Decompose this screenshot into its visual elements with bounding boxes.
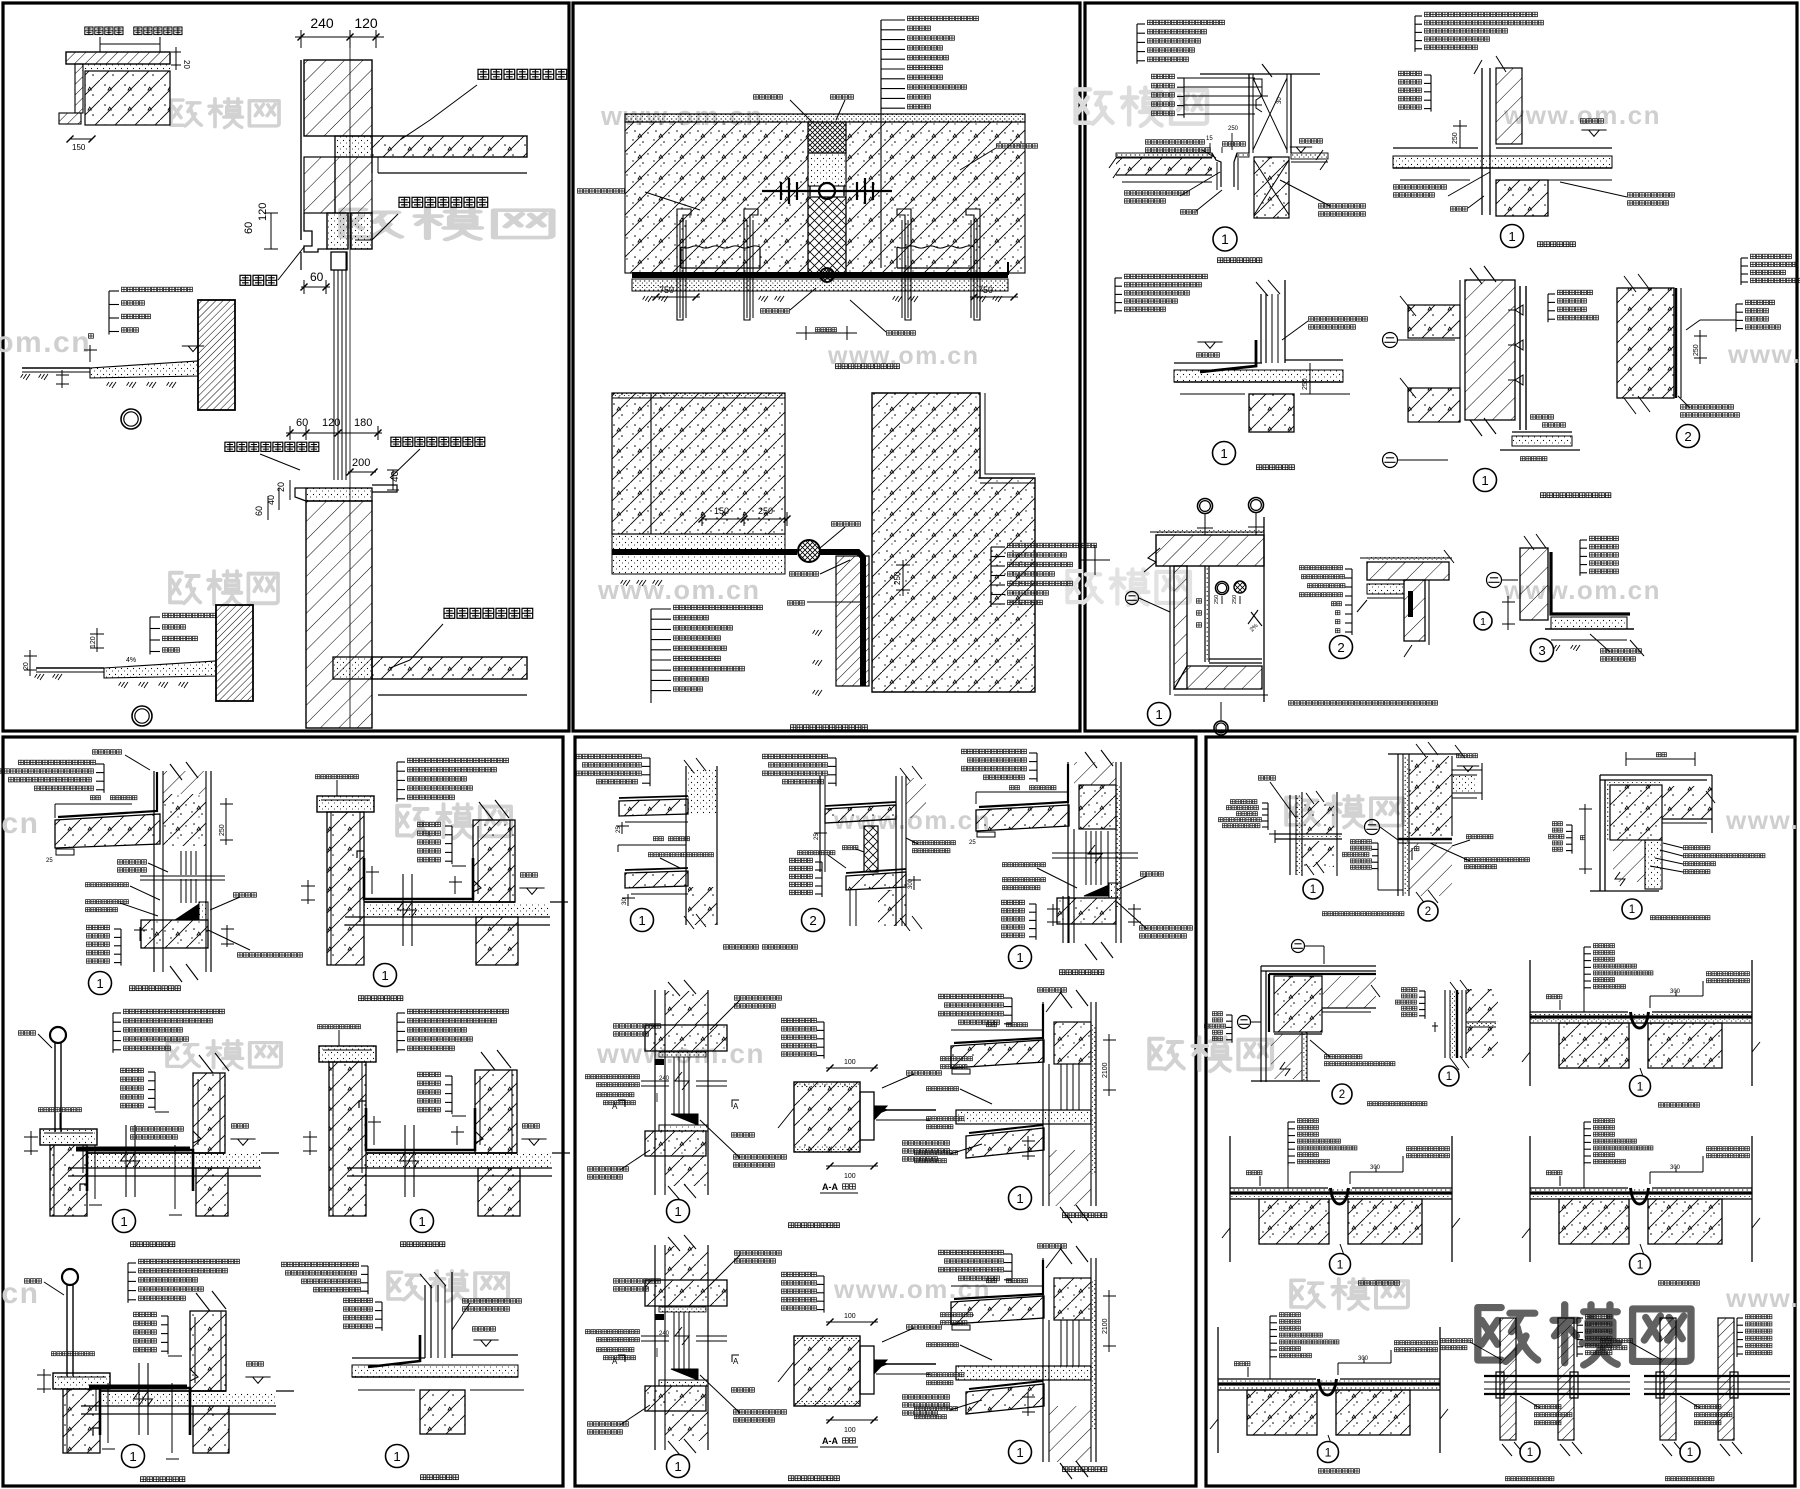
p6E wall strips [1444,990,1446,1058]
p4F right label 2 rows [462,1298,522,1304]
svg-text:1: 1 [1220,446,1227,461]
p3B top leader stack [1414,16,1416,52]
window mullion lines [333,270,335,480]
p3A bottom-left 2-row label [1124,190,1190,196]
p4A sill black wedge [175,904,199,920]
ground detail C dim 120 [96,628,98,652]
p2 dims 150 250 [702,518,787,520]
svg-text:1: 1 [674,1204,681,1219]
p3A downpipe label [1180,209,1198,215]
p5A mid dim row [653,836,664,842]
p3B wall above slab hatched [1496,68,1522,144]
svg-text:1: 1 [638,913,645,928]
p3A top leader stack [1136,24,1138,64]
detail A granite-corner labels [84,26,124,36]
p6D right wing hatch [1322,976,1376,1008]
p2 bottom membrane with elbow [612,549,797,555]
p3B pipe label [1450,206,1468,212]
p3C circled 1 [1213,442,1236,465]
svg-text:A-A: A-A [822,1436,838,1446]
p3F top wall band hatched [1156,535,1264,566]
svg-text:250: 250 [1232,595,1238,604]
p2 bottom-left block [612,393,785,534]
p6B circled 2 [1418,901,1438,921]
p6D earth symbol left [1238,1016,1251,1029]
p6C break mark right [1706,791,1715,803]
upper beam in wall [335,136,372,157]
p6C circled 1 [1622,899,1642,919]
p4A top dim line [90,795,101,801]
p6D caption [1367,1101,1428,1107]
p6C top dim bracket [1626,758,1695,760]
ground detail B ground line left and soil [22,367,90,369]
svg-text:1: 1 [1221,232,1229,247]
p3A floor slab [1116,158,1212,175]
p6E left stack [1424,991,1426,1019]
p3H earth symbol left [1487,573,1502,588]
ground detail B soil zigzag below slab [107,382,116,388]
p3A mid-left 2-row label [1145,139,1205,145]
p6A small tick [1274,830,1276,843]
svg-text:1: 1 [1481,473,1488,488]
ground detail C wall block [216,605,253,701]
panel border bottom-left [3,737,563,1486]
p2 bottom speckle band [632,279,1008,291]
p2 bottom-right block outline [872,393,1035,692]
svg-text:20: 20 [276,482,286,492]
joint caption [1287,1122,1289,1166]
p6C right concrete wing [1662,786,1712,819]
p6E break marks [1450,980,1469,994]
label precast terrazzo window sill board [390,436,486,448]
p5B right label 2rows [912,840,956,846]
p5A lower slab [625,871,688,888]
watermark om logo p1 bottom [170,571,278,605]
p3H circled 1 small left [1474,612,1492,630]
svg-text:2100: 2100 [1102,1318,1109,1334]
p2 label caulking above joint [753,94,783,100]
p3B left small stack [1430,75,1432,112]
p2 label pvc strip right [886,330,916,336]
p3C caption [1256,464,1295,471]
p3A caption [1217,257,1263,264]
svg-text:1: 1 [1337,1257,1344,1271]
p6C corner frame lines [1600,775,1712,780]
p3A right 2-row label [1318,203,1366,209]
p3C right leader label 2 rows [1308,316,1368,322]
p3D bottom labels [1530,414,1554,420]
svg-text:1: 1 [1637,1079,1644,1093]
central upper wall hatched [300,60,302,240]
p2 water stop lines wavy [681,246,760,248]
watermark om logo p1 mid [342,208,552,239]
p6B lower hatch [1409,843,1452,896]
svg-text:120: 120 [354,15,378,31]
p3D circled 1 [1474,469,1497,492]
ground detail B wall block [198,300,235,410]
p4F circled 1 [386,1445,409,1468]
svg-text:1: 1 [1508,229,1515,244]
svg-text:A: A [733,1357,739,1366]
svg-text:1: 1 [120,1214,127,1229]
p3G inner tile band [1367,584,1404,594]
p4A lower concrete block [141,920,208,948]
svg-text:100: 100 [844,1173,856,1180]
p3C membrane upturn at window [1200,340,1256,372]
p5B slope label [797,850,836,856]
p6D corner outer lines [1261,966,1376,971]
p3B circled 1 [1501,225,1524,248]
p6C inner concrete block [1610,785,1662,840]
p6A break marks [1306,791,1324,804]
p6A+B caption [1322,911,1405,917]
p3F right edge line [1263,517,1265,702]
p2 soil hatch clusters [643,296,652,302]
svg-text:3: 3 [1538,643,1545,658]
svg-text:150: 150 [72,143,86,152]
svg-text:1: 1 [418,1214,425,1229]
svg-text:300: 300 [1670,989,1681,995]
p3F circled 1 [1148,703,1171,726]
p3B dim 250 near pipe [1459,120,1461,148]
bay caption [1011,998,1013,1027]
joint caption [1583,1122,1585,1166]
p4A vdim right 250 [225,798,227,845]
p3A small stack rung extensions [1184,77,1255,79]
p4F t-beam [420,1390,465,1434]
ground detail C leader stack [149,617,151,655]
svg-text:25: 25 [46,858,53,864]
label precast concrete lintel [398,196,489,209]
panel border bottom-middle [575,737,1196,1486]
ground detail B circle mark [121,409,141,429]
svg-text:1: 1 [674,1459,681,1474]
p5A dim 25 [621,822,623,834]
left wall face line going down [300,252,302,270]
p6D bottom ground line [1251,1080,1320,1082]
p3D anchor marks [1515,305,1523,315]
svg-text:300: 300 [908,878,914,889]
p6D earth symbol top [1292,940,1305,953]
ground detail C left dims [29,650,31,676]
p3G right wall [1404,580,1425,641]
svg-text:60: 60 [243,222,255,234]
p5AB captions [723,944,759,950]
detail A bottom return piece [59,113,81,124]
skirt circled 1 [654,1245,656,1450]
p3A nabla floor label right [1296,147,1306,153]
p4E flagpole circle 2 [62,1269,78,1285]
p5B vent box crosshatch [864,826,878,872]
p6C left stack [1571,825,1573,854]
svg-text:2100: 2100 [1102,1062,1109,1078]
p6B break top right [1455,745,1465,758]
p4A inner sill label [233,892,257,898]
watermark om logo p3 left-mid fragment [1067,569,1190,605]
svg-text:A: A [733,1102,739,1111]
p3A drain dip and pipe [1212,153,1221,187]
detail A mortar band under slab [82,64,170,71]
p3C window mullions [1260,294,1262,363]
p4F membrane upturn [368,1335,420,1367]
skirt circled 1 [654,990,656,1195]
p5A dim 30 [627,894,629,906]
p6C left vdim [1584,804,1586,874]
p3D left break diag [1400,296,1416,398]
balcony caption [319,1046,376,1062]
p3G top wall band [1367,562,1449,580]
svg-text:250: 250 [893,571,902,585]
svg-text:200: 200 [352,457,370,469]
p6B membrane at floor [1398,838,1452,840]
svg-text:2: 2 [809,913,816,928]
ground detail C floor wedge [104,661,216,678]
p2 recess steps [680,247,682,268]
p3E membrane lines right edge [1675,288,1677,398]
p4C label rows mid [130,1126,184,1132]
p3E wall block [1617,288,1674,398]
svg-text:100: 100 [844,1313,856,1320]
svg-text:240: 240 [659,1076,670,1082]
svg-text:A-A: A-A [822,1182,838,1192]
svg-text:15: 15 [1206,136,1213,142]
svg-text:30: 30 [622,898,628,905]
label fine-stone concrete floor (top) [477,68,568,81]
svg-text:30: 30 [1277,97,1283,104]
p6A axis line [1336,792,1338,876]
svg-text:750: 750 [978,285,993,295]
svg-text:1: 1 [1310,884,1316,896]
svg-text:100: 100 [844,1059,856,1066]
svg-text:300: 300 [1370,1165,1381,1171]
watermark om logo p6 mid-light [1291,1279,1408,1310]
p3B t-beam right of pipe [1496,180,1548,216]
svg-text:150: 150 [714,506,729,516]
watermark om logo p3 left-top fragment [1076,88,1207,126]
p6B top line [1388,753,1460,755]
p6A left stack [1267,803,1269,830]
p3H right lower label 2 rows [1600,648,1642,654]
p3C dim 250 [1309,363,1311,394]
p4F small stack left [381,1302,383,1331]
p3C top-left leader stack [1114,278,1116,314]
p3D caption [1540,492,1612,499]
detail A wall render strip [75,64,83,113]
p2 label waterproof layer [787,600,805,606]
svg-text:25: 25 [616,826,622,833]
p6D left stack [1231,1015,1233,1043]
svg-text:1: 1 [96,976,103,991]
ground detail B leader stack [108,291,110,335]
p3A right floor band [1291,153,1328,159]
balcony caption [317,796,374,812]
p3A floor surface bands [1116,153,1212,157]
p2 top caption [835,363,900,370]
p4A wall double lines [153,771,155,972]
p6E hatch right of wall [1466,989,1498,1022]
svg-text:60: 60 [254,506,264,516]
bay caption [1011,1254,1013,1283]
p6D membrane dark lines [1269,973,1376,975]
p6A top label drain [1258,775,1276,781]
svg-text:100: 100 [844,1427,856,1434]
p3A wall interior X [1253,78,1287,150]
wall between slab and lintel [304,157,335,213]
p2 soil ticks below left block [621,580,630,586]
p5A lower wall hatch [688,887,717,925]
p4E thick membrane band [89,1385,187,1390]
p2 label foam backing [789,571,819,577]
svg-text:4%: 4% [126,657,136,664]
svg-text:1: 1 [129,1449,136,1464]
p3F drains [1216,582,1229,595]
p3F inner face labels [1196,598,1202,604]
svg-text:240: 240 [659,1331,670,1337]
watermark om logo p6 big dark [1478,1305,1691,1365]
p5B wall lines left [819,776,821,872]
watermark om logo p6 top [1286,796,1403,827]
p6B left stack [1377,843,1379,872]
detail A dims [175,47,177,70]
ground detail B nabla [188,346,198,352]
p6D inner concrete square [1274,976,1322,1032]
p3D earth symbols [1383,333,1398,348]
p6A slab band [1275,833,1342,835]
p5B top stack [835,758,837,786]
p6C column strip below [1645,840,1662,889]
p6E small dim [1432,1025,1438,1027]
p3C balcony floor label + nabla [1196,352,1220,358]
p3G corner seal black [1408,591,1413,617]
p5B wall right lines [895,776,897,926]
svg-text:25: 25 [969,840,976,846]
p3A wall top line and break [1200,73,1320,75]
svg-text:250: 250 [1214,595,1220,604]
p2 waterstop circle [819,183,835,199]
p2 label left waterproof [577,188,625,194]
p2 joint diamond filler strip [808,197,846,276]
ground detail C ground line left and soil [36,667,104,669]
p3A drain opening label [1222,141,1246,147]
svg-text:1: 1 [1016,1445,1023,1460]
svg-text:180: 180 [354,417,372,429]
p6B upper concrete mass [1409,756,1452,836]
svg-text:250: 250 [1693,344,1700,356]
p3H right stack [1579,540,1581,576]
p3F left wall band [1174,566,1187,689]
p3H membrane elbow thick [1551,552,1630,614]
p3F plan refs top [1198,499,1213,514]
ground detail B floor wedge [90,361,198,378]
p3A left small stack [1183,78,1185,118]
svg-text:40: 40 [390,470,401,482]
p2 vertical dim 250 right [902,560,904,596]
p6C hatch left of column [1613,840,1645,882]
p4A wall break top [170,762,198,780]
p3G left label stack 8 rows [1351,569,1353,635]
svg-text:250: 250 [1302,378,1309,390]
p2 membrane joint circle [820,268,834,282]
p2 horizontal tick marks right mass [1080,559,1110,561]
label fill no.200 fine stone concrete [224,441,320,453]
p6D right labels 2 rows [1324,1054,1363,1060]
svg-text:1: 1 [1016,1191,1023,1206]
svg-text:250: 250 [219,824,226,836]
svg-text:www.om.cn: www.om.cn [1503,100,1661,130]
p3B right leader label 2 rows [1627,192,1675,198]
p2 joint filler crosshatch [808,122,846,153]
p2 bottom-right leader stack [990,547,992,607]
p4C thick membrane band [76,1147,190,1152]
p3F top band break [1144,548,1160,572]
p2 joint caulking dots [808,153,846,186]
window frame head [331,252,347,270]
p3B caption [1537,241,1576,248]
p4A lower-left small stack [120,929,122,966]
detail A hatched wall block [85,71,170,125]
p6B small dim [1411,848,1413,860]
p2 soil zigzag left of strip [813,630,822,636]
p6C caption [1650,915,1711,921]
pipe caption [1660,1318,1676,1440]
p2 label right pipe joint [996,143,1038,149]
svg-text:www.: www. [1725,805,1799,835]
p3E bottom labels 2 rows [1680,404,1734,410]
p4A top leader stack right-aligned [103,764,105,793]
p5A circled 1 [631,909,654,932]
p6B step slab right [1452,770,1482,798]
detail A granite top slab [66,52,170,64]
p4F top stack right-aligned [367,1266,369,1294]
p4A 2row label seal [85,899,129,905]
p3A wall with double edges [1248,74,1250,153]
svg-text:1: 1 [381,968,388,983]
p2 top-right leader stack [880,20,882,111]
p2 waterstop circle bottom [798,540,820,562]
p3H soil ticks [1551,645,1560,651]
p3A parapet profile inside wall [1254,79,1262,112]
p2 top-left concrete mass [625,122,808,273]
pipe caption [1500,1318,1516,1440]
panel border top-middle [573,3,1080,731]
p5B lower hatch block [878,890,906,926]
p4A outer waterproof label [92,749,122,755]
label drip line [239,274,278,287]
p3F earth symbol left [1126,592,1139,605]
p3C floor slab [1174,360,1343,363]
svg-text:1: 1 [1687,1447,1693,1459]
p3F bottom ref circle [1214,721,1228,735]
svg-text:2: 2 [1684,429,1691,444]
p6A wall lines [1289,795,1291,875]
p3F slope arrow [1248,610,1262,626]
p2 bottom-left lower speckle [612,534,785,574]
window sill slab [306,488,372,501]
precast lintel blocks [327,213,348,249]
p6B earth symbol [1365,820,1380,835]
central wall axis line [349,48,351,728]
p2 top-right concrete mass [846,122,1025,273]
svg-text:1: 1 [1016,950,1023,965]
p5B circled 2 [802,909,825,932]
ground detail B small dim [89,345,91,362]
svg-text:1: 1 [1629,904,1635,916]
p4A mid break lines [140,875,225,877]
p3D right stack small [1547,294,1549,322]
svg-text:750: 750 [659,285,674,295]
p5A upper wall block [688,768,717,814]
svg-text:2: 2 [1339,1089,1345,1101]
